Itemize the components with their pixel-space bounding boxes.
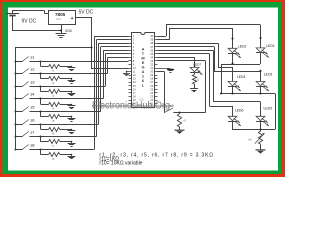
resistor r5 pulldown: [40, 111, 73, 124]
microcontroller IC2 ATMEGA16L: [129, 33, 158, 108]
outer red frame: [0, 0, 285, 177]
wire s8 to IC pin: [30, 36, 129, 149]
svg-text:s2: s2: [31, 68, 35, 72]
junction on LED1 feed: [260, 37, 262, 39]
svg-text:s3: s3: [31, 81, 35, 85]
svg-text:LED6: LED6: [235, 109, 244, 113]
ground arrow under r9: [175, 129, 185, 131]
svg-text:r5: r5: [52, 119, 55, 123]
svg-text:s6: s6: [31, 119, 35, 123]
wire s7 to IC pin: [30, 40, 129, 137]
switch s1: [15, 56, 35, 63]
variable resistor r10: [248, 130, 265, 150]
resistor r9: [177, 113, 186, 131]
switch s6: [15, 119, 35, 126]
ground under r11: [190, 89, 198, 92]
svg-text:r10: r10: [248, 138, 252, 142]
ground for r4: [68, 104, 76, 108]
resistor r3 pulldown: [40, 86, 73, 98]
svg-text:LED1: LED1: [266, 44, 275, 48]
LED6 bottom-left: [228, 109, 243, 130]
svg-text:r11: r11: [195, 77, 199, 81]
row3 cathode bus: [232, 129, 275, 131]
wire pin30 down to s9: [158, 72, 165, 113]
switch s5: [15, 106, 35, 113]
svg-text:s4: s4: [31, 93, 35, 97]
resistor r7 pulldown: [40, 136, 73, 149]
ground for r5: [68, 117, 76, 122]
ground arrow under r10: [256, 149, 266, 151]
svg-text:IC1: IC1: [57, 17, 62, 21]
wire battery+ to 7805 input: [12, 11, 48, 14]
svg-text:r9: r9: [183, 119, 186, 123]
resistor r6 pulldown: [40, 124, 73, 136]
wire pin36 to LED5: [158, 50, 261, 116]
voltage regulator IC1 7805: [49, 11, 76, 25]
wire s3 to IC pin: [30, 54, 129, 87]
switch s4: [15, 93, 35, 100]
ground for r7: [68, 142, 76, 147]
svg-text:r4: r4: [52, 106, 55, 110]
svg-text:r7: r7: [52, 144, 55, 148]
wire pin38 to LED4: [158, 43, 233, 81]
resistor r4 pulldown: [40, 98, 73, 111]
wire pin39 to LED2 column: [158, 28, 233, 48]
resistor r11: [192, 73, 199, 89]
switch s3: [15, 81, 35, 88]
svg-text:r10= 10KΩ variable: r10= 10KΩ variable: [99, 161, 142, 167]
LED7: [190, 62, 202, 74]
LED5 bottom-right: [256, 106, 272, 129]
inner green frame: [3, 2, 282, 174]
svg-text:LED3: LED3: [264, 72, 273, 76]
switch s9: [164, 104, 180, 113]
ground for r8: [68, 155, 76, 159]
ground for r6: [68, 129, 76, 133]
wire pin35 to LED6: [158, 54, 233, 117]
LED2 top-left: [228, 44, 246, 64]
junction on LED2 feed: [232, 38, 234, 40]
resistor r2 pulldown: [40, 73, 73, 86]
svg-text:s7: s7: [31, 131, 35, 135]
wire battery- to ground rail: [12, 30, 61, 32]
ground at IC right AGND: [158, 69, 175, 73]
LED1 top-right: [256, 44, 275, 64]
svg-text:s5: s5: [31, 106, 35, 110]
wire s6 to IC pin: [30, 43, 129, 124]
svg-text:LED4: LED4: [237, 75, 246, 79]
LED3 mid-right: [256, 72, 272, 93]
svg-text:ElectronicsHub.Org: ElectronicsHub.Org: [92, 101, 170, 112]
switch s8: [15, 144, 35, 151]
wire s4 to IC pin: [30, 50, 129, 99]
svg-text:LED2: LED2: [238, 44, 247, 48]
svg-text:r2: r2: [52, 81, 55, 85]
battery B1 9V DC: [6, 11, 37, 31]
resistor r8 pulldown: [40, 149, 73, 161]
svg-text:LED5: LED5: [264, 106, 273, 110]
switch s7: [15, 131, 35, 138]
wire s1 to IC pin: [30, 61, 129, 63]
svg-text:s8: s8: [31, 144, 35, 148]
junction 5V rail to switch bus: [91, 47, 93, 49]
LED4 mid-left: [228, 75, 245, 94]
switch s2: [15, 68, 35, 75]
row1 cathode bus: [221, 63, 260, 94]
svg-text:+: +: [71, 16, 74, 22]
ground for r3: [68, 92, 76, 96]
wire pin34 to LED7: [158, 57, 195, 67]
svg-text:r8: r8: [52, 157, 55, 161]
svg-text:r3: r3: [52, 94, 55, 98]
svg-text:r1: r1: [52, 69, 55, 73]
ground for r1: [68, 66, 76, 70]
ground under 7805: [56, 25, 73, 38]
svg-text:s9: s9: [170, 104, 174, 108]
node s9/r9 junction: [179, 112, 181, 114]
wire 7805 output 5V rail: [76, 17, 129, 69]
wire s2 to IC pin: [30, 57, 129, 73]
wire 5V to switch bus: [15, 48, 91, 150]
svg-text:5V DC: 5V DC: [79, 10, 94, 16]
svg-text:9V DC: 9V DC: [22, 18, 37, 24]
wire s5 to IC pin: [30, 47, 129, 112]
svg-text:s1: s1: [31, 56, 35, 60]
resistor r1 pulldown: [40, 61, 73, 73]
wire pin37 to LED3: [158, 47, 262, 82]
svg-text:GND: GND: [65, 29, 73, 33]
ground for r2: [68, 79, 76, 84]
notes text: [99, 152, 213, 166]
wire pin40 to LED1 column: [158, 25, 261, 49]
row2 cathode bus: [220, 93, 276, 130]
ground at IC pin 11 left: [123, 71, 130, 76]
svg-text:r6: r6: [52, 132, 55, 136]
wire pin33 to switch s9: [158, 61, 206, 113]
